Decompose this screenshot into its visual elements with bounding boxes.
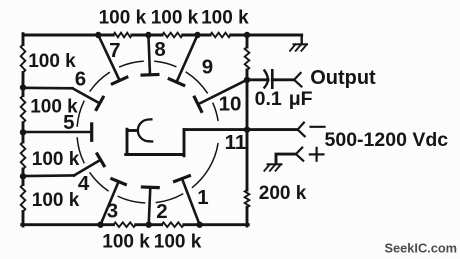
tube envelope circle (dashed) (77, 61, 218, 203)
svg-text:11: 11 (225, 131, 247, 154)
electrode pin 7 (98, 35, 119, 81)
capacitor C1 0.1uF straight plate (271, 70, 274, 87)
resistor 100k bottom 1 (114, 222, 136, 227)
wire capacitor to output connector (272, 78, 294, 81)
svg-text:100 k: 100 k (99, 8, 147, 29)
wire plus terminal (276, 153, 296, 156)
node dot bottom 3 (196, 222, 202, 228)
electrode pin 6 (72, 88, 99, 103)
wire right bus segment 2 (246, 70, 249, 190)
electrode pin 4 (74, 160, 101, 176)
photocathode box top-left stub (127, 129, 137, 132)
svg-text:100 k: 100 k (32, 149, 80, 170)
node dot left 3 (20, 173, 26, 179)
resistor 100k bottom 2 (162, 222, 184, 227)
chassis ground (top right) (301, 35, 303, 44)
node dot left 2 (20, 129, 26, 135)
wire left bus segment 1 (22, 34, 25, 45)
resistor 100k top 2 (162, 33, 183, 38)
svg-text:100 k: 100 k (154, 231, 202, 252)
svg-text:100 k: 100 k (151, 8, 199, 29)
wire top bus segment to ground (231, 34, 302, 37)
electrode pin 9 (177, 35, 198, 82)
wire bottom bus segment 2 (136, 223, 162, 226)
svg-text:100 k: 100 k (28, 51, 76, 72)
resistor R 200k (245, 190, 250, 207)
wire to pin 6 (23, 87, 72, 90)
wire left bus segment 3 (22, 123, 25, 142)
wire cap node to capacitor (247, 78, 268, 81)
resistor 100k right top (unlabeled) (245, 47, 250, 70)
node dot right cap (244, 77, 250, 83)
photocathode crescent arc (138, 119, 152, 141)
svg-text:SeekIC.com: SeekIC.com (385, 240, 458, 255)
resistor 100k left 3 (21, 142, 26, 169)
photocathode box left side (126, 129, 129, 154)
electrode pin 10 (198, 80, 247, 105)
node dot left 1 (20, 84, 26, 90)
wire bottom bus segment 3 (184, 223, 248, 226)
electrode pin 5 bar (90, 124, 93, 140)
wire anode pin 11 to minus terminal (184, 128, 298, 131)
wire top bus segment 3 (183, 34, 210, 37)
label minus sign (311, 126, 325, 128)
connector output terminal (294, 73, 301, 80)
electrode pin 1 (182, 179, 200, 225)
electrode pin 8 (148, 35, 150, 75)
svg-text:100 k: 100 k (201, 8, 249, 29)
svg-text:200 k: 200 k (259, 183, 307, 204)
node dot top 2 (145, 32, 151, 38)
svg-text:6: 6 (75, 67, 86, 90)
node dot top 4 (244, 32, 250, 38)
electrode pin 2 (149, 187, 151, 224)
svg-text:4: 4 (78, 172, 90, 195)
wire top bus segment 2 (132, 34, 162, 37)
svg-text:0.1 μF: 0.1 μF (255, 88, 313, 110)
resistor 100k left 1 (21, 45, 26, 73)
wire left bus segment 2 (22, 73, 25, 96)
svg-text:8: 8 (154, 38, 165, 61)
svg-text:2: 2 (156, 200, 167, 223)
label plus sign (310, 153, 324, 155)
connector plus terminal (296, 148, 302, 155)
chassis ground (plus side) (268, 163, 282, 165)
wire right bus segment 3 (246, 207, 249, 226)
node dot bottom 1 (97, 222, 103, 228)
wire to pin 4 (23, 174, 74, 177)
node dot top 1 (95, 32, 101, 38)
wire to pin 5 (23, 131, 90, 134)
svg-text:100 k: 100 k (32, 190, 80, 211)
resistor 100k left 2 (21, 96, 26, 123)
svg-text:500-1200 Vdc: 500-1200 Vdc (325, 129, 449, 151)
wire right bus segment 1 (246, 35, 249, 47)
wire bottom bus segment 1 (22, 223, 114, 226)
connector minus terminal (298, 123, 304, 130)
node dot bottom 2 (146, 222, 152, 228)
wire left bus segment 5 (22, 212, 25, 227)
resistor 100k left 4 (21, 185, 26, 212)
wire top bus left segment (23, 34, 113, 37)
svg-text:3: 3 (107, 200, 118, 223)
wire left bus segment 4 (22, 169, 25, 185)
node dot right anode (244, 126, 250, 132)
photocathode box bottom (126, 153, 184, 156)
svg-text:5: 5 (63, 111, 74, 134)
resistor 100k top 1 (113, 33, 132, 38)
electrode pin 3 (101, 182, 119, 225)
node dot top 3 (194, 32, 200, 38)
svg-text:1: 1 (197, 186, 208, 209)
svg-text:7: 7 (109, 39, 120, 62)
resistor 100k top 3 (210, 33, 231, 38)
svg-text:100 k: 100 k (102, 231, 150, 252)
svg-text:10: 10 (219, 92, 242, 115)
photocathode box right step (183, 130, 186, 156)
capacitor C1 0.1uF curved plate (264, 71, 267, 88)
svg-text:Output: Output (310, 67, 376, 89)
svg-text:9: 9 (202, 56, 213, 79)
